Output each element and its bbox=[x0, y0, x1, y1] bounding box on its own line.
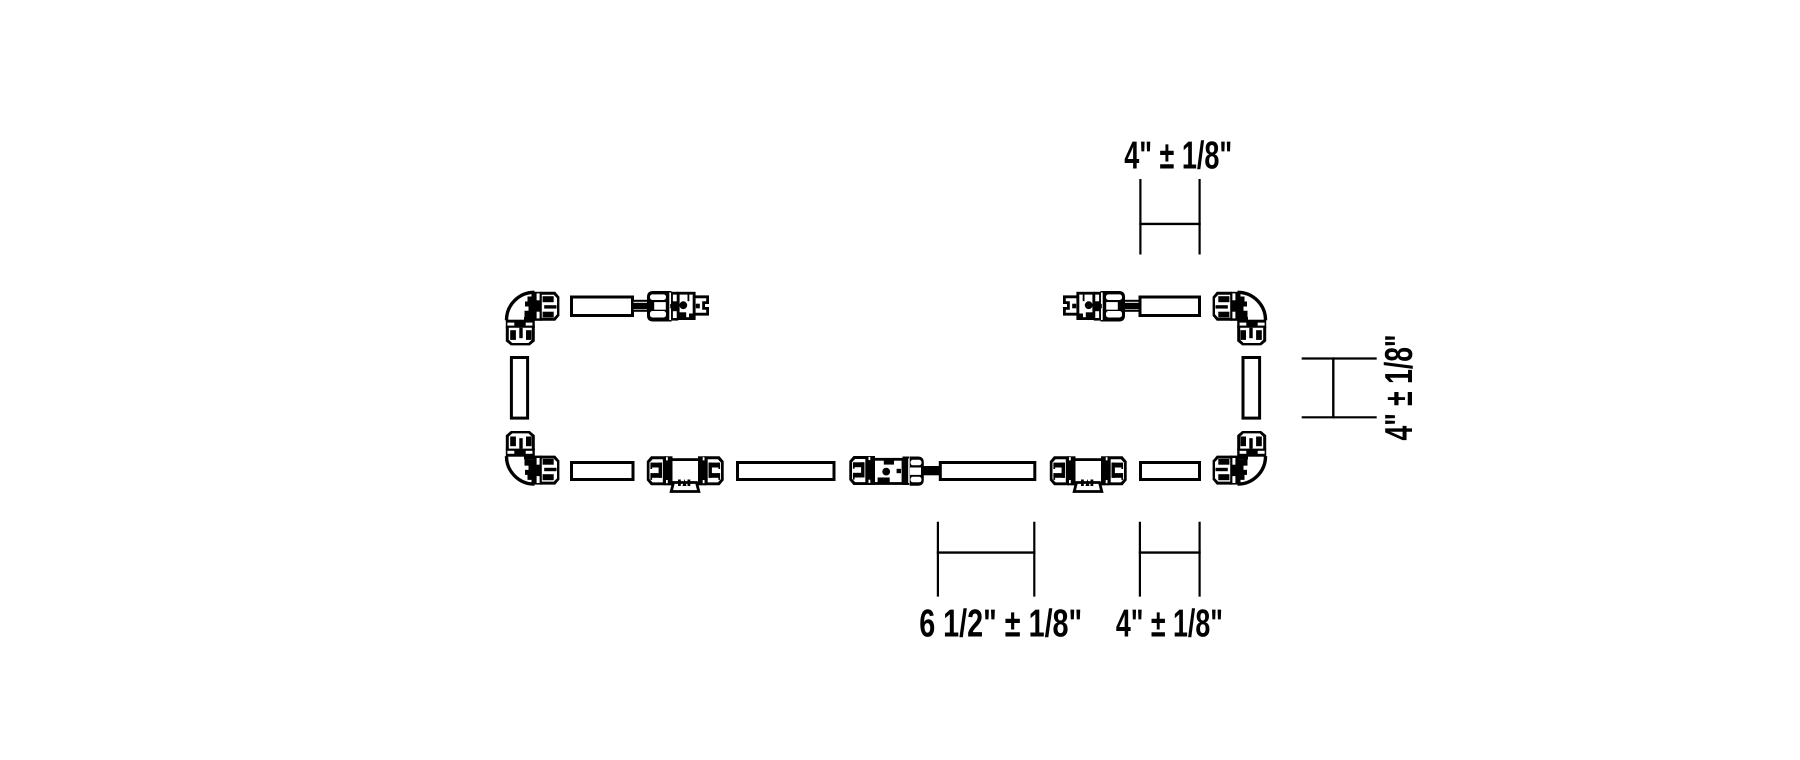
coupler B2 bottom bbox=[1050, 456, 1127, 491]
svg-text:6 1/2" ± 1/8": 6 1/2" ± 1/8" bbox=[919, 603, 1082, 646]
track rail R4 bottom bbox=[738, 463, 835, 480]
dimension lines bottom 4 inch bbox=[1139, 522, 1201, 597]
coupler B1 bottom bbox=[647, 456, 724, 491]
corner elbow top-right bbox=[1213, 292, 1267, 346]
corner elbow bottom-left bbox=[506, 431, 560, 485]
track rail R1 top-left bbox=[572, 297, 633, 316]
dimension lines bottom 6.5 inch bbox=[937, 522, 1036, 597]
inline connector top-left bbox=[633, 291, 708, 322]
dimension lines top 4 inch bbox=[1139, 179, 1200, 255]
track rail R2 top-right 4 inch bbox=[1140, 297, 1200, 316]
corner elbow top-left bbox=[506, 292, 560, 346]
svg-text:4" ± 1/8": 4" ± 1/8" bbox=[1116, 603, 1223, 646]
dimension lines right 4 inch bbox=[1302, 357, 1377, 418]
track rail R6 bottom 4 inch bbox=[1141, 463, 1200, 480]
inline connector top-right bbox=[1064, 291, 1139, 322]
corner elbow bottom-right bbox=[1213, 431, 1267, 485]
inline connector C bottom bbox=[849, 456, 940, 486]
track rail right vertical bbox=[1243, 358, 1260, 419]
track rail R5 bottom 6.5 inch bbox=[940, 463, 1035, 480]
svg-text:4" ± 1/8": 4" ± 1/8" bbox=[1124, 135, 1232, 178]
track rail R3 bottom bbox=[572, 463, 634, 480]
track rail left vertical bbox=[511, 358, 527, 419]
svg-text:4" ± 1/8": 4" ± 1/8" bbox=[1378, 335, 1421, 441]
